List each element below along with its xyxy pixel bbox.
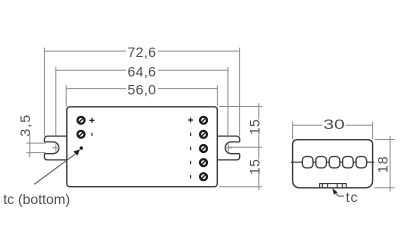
side view mid parting line	[291, 161, 374, 163]
terminal screw left 1	[78, 117, 85, 124]
svg-text:72,6: 72,6	[127, 44, 156, 60]
terminal screw right 5	[200, 173, 207, 180]
dimension 72,6	[44, 44, 239, 136]
svg-text:tc (bottom): tc (bottom)	[3, 191, 70, 207]
terminal screw right 1	[200, 117, 207, 124]
dimension 15 lower	[219, 159, 262, 190]
svg-text:18: 18	[374, 155, 390, 173]
side view tc pad	[320, 184, 347, 188]
svg-text:tc: tc	[346, 189, 359, 205]
svg-text:30: 30	[323, 116, 345, 132]
svg-text:3,5: 3,5	[17, 114, 33, 137]
tc leader (side view)	[332, 188, 358, 205]
side view terminal 5	[356, 157, 367, 168]
dimension 56,0	[66, 82, 217, 107]
side view body	[293, 140, 373, 188]
tc point dot	[80, 146, 83, 149]
minus label right 3	[190, 147, 192, 150]
tc leader arrow	[34, 149, 80, 184]
minus label right 5	[190, 175, 192, 178]
right mounting ear	[217, 136, 239, 160]
terminal screw right 2	[200, 131, 207, 138]
svg-text:64,6: 64,6	[127, 63, 156, 79]
module body (top view)	[67, 107, 218, 187]
side view terminal 2	[316, 157, 327, 168]
svg-text:15: 15	[247, 159, 262, 175]
dimension 15 upper	[219, 103, 262, 159]
terminal screw right 4	[200, 159, 207, 166]
right ear slot	[225, 142, 239, 154]
left ear slot	[44, 142, 59, 154]
left slot center mark	[52, 144, 59, 151]
tc (bottom) label	[3, 191, 70, 207]
side view terminal 3	[329, 157, 340, 168]
minus label left	[91, 133, 93, 136]
svg-text:56,0: 56,0	[127, 82, 156, 98]
right slot center mark	[225, 144, 232, 151]
minus label right 2	[190, 133, 192, 136]
plus label right	[188, 118, 193, 123]
plus label left	[89, 118, 94, 123]
terminal screw left 2	[78, 131, 85, 138]
side view terminal 1	[302, 157, 313, 168]
minus label right 4	[190, 161, 192, 164]
dimension 30	[293, 116, 373, 139]
terminal screw right 3	[200, 145, 207, 152]
dimension 64,6	[56, 63, 228, 135]
dimension 3,5	[17, 114, 46, 157]
side view terminal 4	[343, 157, 354, 168]
left mounting ear	[44, 136, 66, 160]
svg-text:15: 15	[247, 119, 262, 135]
dimension 18	[374, 136, 394, 191]
